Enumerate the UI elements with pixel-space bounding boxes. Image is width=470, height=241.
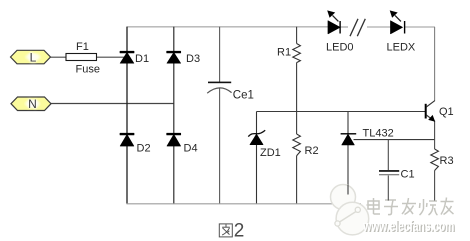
svg-text:R2: R2 (305, 145, 319, 157)
svg-text:D2: D2 (137, 143, 151, 155)
svg-text:D3: D3 (186, 53, 200, 65)
svg-text:2: 2 (234, 221, 245, 241)
svg-text:TL432: TL432 (363, 128, 394, 140)
svg-text:Fuse: Fuse (76, 64, 100, 76)
svg-text:Ce1: Ce1 (233, 90, 254, 102)
svg-text:LED0: LED0 (326, 42, 354, 54)
svg-text:LEDX: LEDX (387, 42, 416, 54)
svg-text:ZD1: ZD1 (260, 147, 281, 159)
svg-text:L: L (30, 51, 37, 65)
svg-text:D4: D4 (184, 143, 198, 155)
svg-text:Q1: Q1 (439, 106, 454, 118)
svg-text:R1: R1 (277, 47, 291, 59)
svg-text:D1: D1 (135, 53, 149, 65)
svg-text:N: N (28, 97, 37, 111)
svg-text:R3: R3 (440, 155, 454, 167)
svg-text:www.elecfans.com: www.elecfans.com (363, 218, 455, 235)
svg-text:F1: F1 (76, 41, 89, 53)
svg-text:C1: C1 (401, 169, 415, 181)
